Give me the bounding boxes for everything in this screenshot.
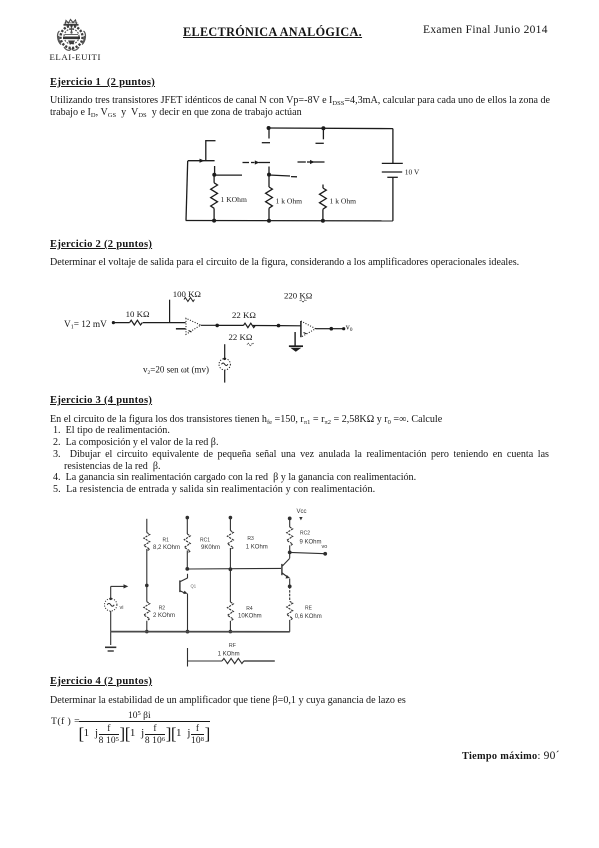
op-amp U1: [186, 318, 201, 334]
node RC1 top: [186, 516, 190, 520]
header titles: [183, 25, 362, 40]
transistor Q2: [282, 552, 290, 578]
transistor J2 (JFET): [243, 128, 271, 174]
svg-text:vo: vo: [322, 544, 328, 550]
resistor RS3 1kOhm: [320, 188, 357, 221]
wire to R3: [217, 324, 243, 326]
wire output vo: [290, 552, 326, 553]
wire left vertical: [186, 161, 188, 221]
resistor R1 8,2kOhm: [144, 533, 180, 586]
svg-text:R1: R1: [163, 538, 170, 544]
resistor R2 2kOhm: [144, 585, 175, 631]
svg-text:8,2 KOhm: 8,2 KOhm: [153, 545, 180, 551]
svg-text:Q1: Q1: [191, 584, 197, 589]
transistor J3 (JFET): [298, 128, 325, 188]
transistor Q1: [180, 574, 197, 594]
node input terminal: [112, 321, 115, 324]
resistor RC2 9kOhm: [287, 518, 322, 552]
node bottom RS1: [212, 219, 216, 223]
resistor R5 220 kOhm feedback label: [284, 290, 313, 302]
svg-text:10KOhm: 10KOhm: [238, 614, 262, 620]
node collector Q2 / output: [288, 551, 292, 555]
resistor RS2 1kOhm: [266, 175, 303, 221]
svg-text:RF: RF: [229, 643, 237, 649]
resistor R2 100 kOhm feedback: [173, 289, 202, 302]
label vo: [346, 323, 353, 334]
svg-text:R4: R4: [246, 606, 253, 612]
label source V1: [64, 320, 107, 331]
wire input: [113, 322, 129, 324]
svg-text:R3: R3: [247, 536, 254, 542]
label Vcc: [297, 509, 307, 515]
node bottom RS3: [321, 219, 325, 223]
node opamp1 output: [215, 324, 219, 328]
svg-text:9 KOhm: 9 KOhm: [300, 540, 322, 546]
battery V1 10V: [382, 129, 420, 221]
wire J2 source branch: [269, 175, 297, 177]
node vo terminal: [342, 327, 345, 330]
ground opamp2: [289, 346, 303, 352]
resistor R3 1kOhm: [227, 518, 267, 570]
svg-text:RC2: RC2: [300, 531, 310, 537]
resistor RC1 9kOhm: [184, 518, 220, 569]
Ejercicio 2: [50, 239, 152, 250]
Tiempo maximo: [462, 750, 560, 762]
wire opamp1 output: [201, 324, 218, 326]
transistor J1 (JFET): [188, 140, 216, 175]
wire junction to opamp2: [279, 325, 301, 327]
wire vi top to arrow: [111, 584, 129, 598]
wire Q2 emitter down: [289, 579, 291, 587]
wire bottom rail: [186, 220, 393, 222]
header: university crest logo: [55, 17, 91, 53]
resistor RF 1kOhm feedback: [188, 643, 275, 664]
node Vcc RC2 top: [288, 517, 292, 521]
node emitter Q2: [288, 585, 292, 589]
wire base line Q1-Q2: [188, 567, 281, 570]
wire R1 top lead: [146, 519, 148, 533]
wire J1 source branch: [215, 174, 242, 176]
svg-text:0,6 KOhm: 0,6 KOhm: [295, 614, 322, 620]
wire plus input stub opamp1: [176, 328, 186, 330]
resistor RE 0,6kOhm: [287, 586, 322, 631]
wire ground stub opamp2: [294, 332, 296, 346]
source vi: [105, 598, 117, 612]
ground: [105, 632, 116, 651]
node Vcc terminal: [299, 517, 302, 520]
node bottom RS2: [267, 219, 271, 223]
wire RF stub: [187, 648, 189, 667]
node R2 bottom: [145, 630, 149, 634]
node R3 top: [229, 516, 233, 520]
Ejercicio 3: [50, 395, 152, 406]
source v2 sine: [219, 358, 230, 370]
svg-text:RE: RE: [305, 606, 313, 612]
wire opamp2 output: [316, 328, 332, 330]
svg-text:9K0hm: 9K0hm: [201, 545, 220, 551]
formula T(f): [51, 716, 80, 727]
resistor R3 22 kOhm series: [232, 310, 256, 328]
resistor RS1 1kOhm: [211, 175, 247, 221]
wire v2 below: [224, 370, 226, 383]
wire Q1 emitter down: [187, 594, 189, 632]
resistor R4 10kOhm: [227, 569, 261, 631]
wire to vo: [331, 328, 343, 330]
node source J1: [212, 173, 216, 177]
wire top rail: [269, 127, 393, 130]
Ejercicio 4: [50, 676, 152, 687]
svg-text:1 KOhm: 1 KOhm: [218, 652, 240, 658]
svg-text:Vcc: Vcc: [297, 509, 307, 515]
node crossing base line: [229, 567, 233, 571]
wire to opamp2: [253, 325, 279, 327]
wire v2 branch vertical: [224, 344, 226, 358]
node source J2: [267, 173, 271, 177]
node junction top T2: [267, 126, 271, 130]
svg-text:2 KOhm: 2 KOhm: [153, 613, 175, 619]
svg-text:vi: vi: [120, 605, 124, 611]
resistor R1 10 kOhm: [126, 309, 150, 325]
node emitter Q1 bottom: [186, 630, 190, 634]
wire feedback vertical: [169, 300, 171, 323]
wire to opamp1: [143, 322, 186, 324]
svg-text:RC1: RC1: [200, 538, 210, 544]
wire bottom rail: [111, 631, 290, 633]
node R4 bottom: [229, 630, 233, 634]
node vo terminal: [323, 552, 327, 556]
node junction v2 branch: [277, 324, 281, 328]
resistor R4 22 kOhm branch label: [229, 332, 254, 346]
label vo: [322, 544, 328, 550]
node base Q1 / R1-R2: [145, 584, 149, 588]
svg-text:R2: R2: [159, 606, 166, 612]
label vi: [120, 605, 124, 611]
svg-text:1 KOhm: 1 KOhm: [246, 545, 268, 551]
op-amp U2: [301, 321, 316, 337]
node opamp2 output: [330, 327, 334, 331]
Ejercicio 1: [50, 77, 155, 88]
label source v2: [143, 364, 209, 376]
wire vi bottom: [110, 611, 112, 632]
node junction top T3: [321, 126, 325, 130]
node collector Q1: [185, 567, 189, 571]
